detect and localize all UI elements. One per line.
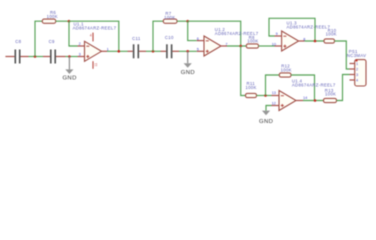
node C junction dot (GND tap) <box>68 55 71 58</box>
op-amp U1.2 <box>197 27 259 56</box>
wire U1.1 out to C11 <box>107 50 128 52</box>
pin 11 power <box>92 61 94 69</box>
wire R11 to pin13 <box>257 95 272 97</box>
resistor R12 <box>279 64 292 78</box>
svg-text:NC3MAV: NC3MAV <box>347 53 366 58</box>
pin 4 power <box>92 33 94 42</box>
wire node D up to R7 <box>153 21 163 51</box>
svg-text:C9: C9 <box>49 39 55 44</box>
svg-text:100K: 100K <box>247 39 258 44</box>
svg-text:AD8674ARZ-REEL7: AD8674ARZ-REEL7 <box>73 26 117 31</box>
wire R7 to node F <box>177 20 188 22</box>
resistor R11 <box>245 81 256 97</box>
capacitor C11 <box>128 36 147 58</box>
wire node F to U1.2 output node <box>188 21 241 46</box>
wire node A up to R6 <box>35 21 42 56</box>
wire C8 to node A <box>29 56 44 58</box>
svg-text:100K: 100K <box>281 67 292 72</box>
wire pin12 to GND3 <box>266 106 272 111</box>
node D junction dot <box>152 50 155 53</box>
op-amp U1.3 <box>272 20 331 51</box>
output node junction dot <box>118 50 121 53</box>
svg-text:100K: 100K <box>325 92 336 97</box>
svg-text:2: 2 <box>79 42 81 46</box>
node K junction dot <box>314 99 317 102</box>
wire R6 to node B <box>56 20 69 22</box>
resistor R6 <box>42 10 58 23</box>
node A junction dot <box>34 55 37 58</box>
svg-text:12: 12 <box>272 102 276 106</box>
svg-text:GND: GND <box>62 75 76 81</box>
node J junction dot <box>264 94 267 97</box>
node B junction dot <box>68 20 71 23</box>
wire pin9 feedback loop <box>269 18 315 41</box>
resistor R7 <box>163 11 177 23</box>
wire node G down to R11 <box>241 46 246 96</box>
wire U1.3 out to R10 <box>305 40 324 42</box>
node G junction dot <box>239 45 242 48</box>
svg-text:100K: 100K <box>245 85 256 90</box>
svg-text:GND: GND <box>259 119 273 125</box>
svg-text:3: 3 <box>356 73 358 77</box>
capacitor C9 <box>43 39 66 64</box>
connector PS1 <box>347 49 366 86</box>
wire node B to output node <box>69 21 119 51</box>
svg-text:C11: C11 <box>132 36 141 41</box>
wire C11 to C10 <box>146 50 161 52</box>
node E junction dot (GND tap) <box>186 50 189 53</box>
svg-text:C10: C10 <box>165 35 174 40</box>
svg-text:3: 3 <box>79 53 81 57</box>
resistor R8 <box>246 35 258 48</box>
capacitor C8 <box>15 39 28 64</box>
node H junction dot <box>314 40 317 43</box>
op-amp U1.4 <box>272 78 336 110</box>
wire U1.4 out to R13 <box>303 100 324 102</box>
svg-text:10: 10 <box>272 42 276 46</box>
svg-text:11: 11 <box>94 63 98 67</box>
svg-text:6: 6 <box>197 37 199 41</box>
wire node B down to pin2 <box>69 21 78 46</box>
svg-text:GND: GND <box>181 70 195 76</box>
wire R12 to output node K <box>291 75 315 101</box>
svg-text:5: 5 <box>197 48 199 52</box>
svg-text:9: 9 <box>276 32 278 36</box>
svg-text:4: 4 <box>356 79 358 83</box>
ground GND2 <box>181 51 195 76</box>
wire node F down to pin6 <box>188 21 197 40</box>
wire C9 to pin3 <box>66 56 78 58</box>
svg-text:C8: C8 <box>15 39 21 44</box>
op-amp U1.1 <box>73 21 117 68</box>
svg-text:4: 4 <box>90 34 92 38</box>
wire U1.2 out to R8 <box>227 45 246 47</box>
wire R13 to PS1 pin3 <box>337 75 350 101</box>
ground GND3 <box>259 111 273 126</box>
wire node J up to R12 <box>266 75 280 96</box>
svg-text:13: 13 <box>272 91 276 95</box>
wire input to C8 <box>5 56 14 58</box>
svg-text:2: 2 <box>356 68 358 72</box>
wire R10 to PS1 pin2 <box>335 41 350 69</box>
svg-text:1: 1 <box>356 62 358 66</box>
svg-text:AD8674ARZ-REEL7: AD8674ARZ-REEL7 <box>292 82 336 87</box>
resistor R10 <box>324 28 337 43</box>
svg-text:14: 14 <box>303 96 307 100</box>
ground GND1 <box>62 57 76 82</box>
capacitor C10 <box>161 35 180 58</box>
svg-text:100K: 100K <box>164 15 175 20</box>
node F junction dot <box>186 20 189 23</box>
resistor R13 <box>324 88 337 103</box>
wire R8 to pin10 <box>259 45 275 47</box>
svg-text:100K: 100K <box>47 14 58 19</box>
svg-text:AD8674ARZ-REEL7: AD8674ARZ-REEL7 <box>287 24 331 29</box>
svg-text:100K: 100K <box>326 32 337 37</box>
wire C10 to pin5 <box>179 50 197 52</box>
